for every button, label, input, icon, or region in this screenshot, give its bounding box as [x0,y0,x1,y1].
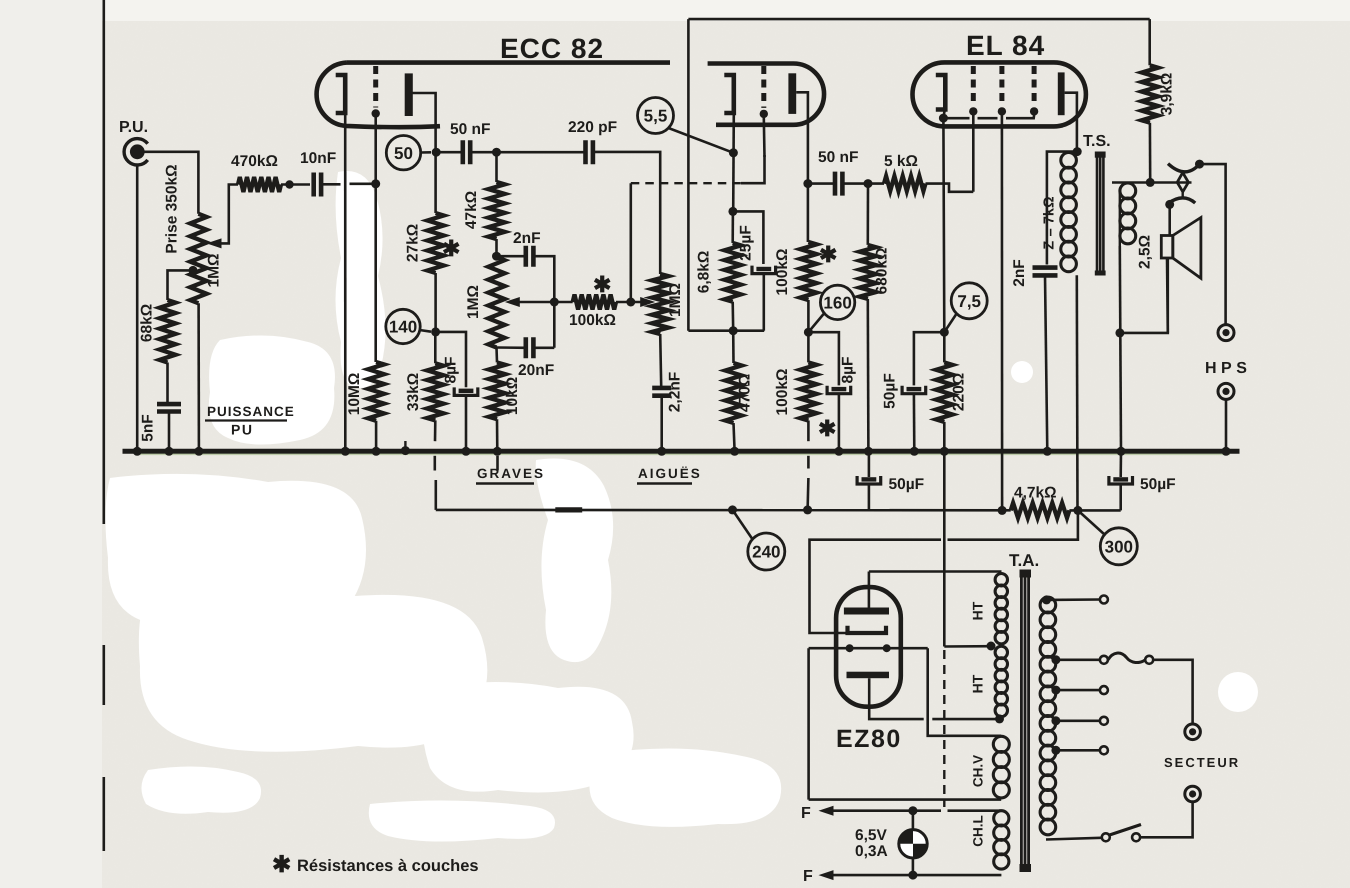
junction [1165,200,1174,209]
svg-text:GRAVES: GRAVES [477,466,545,481]
resistor 100kΩ [573,295,616,310]
svg-text:100kΩ: 100kΩ [569,312,616,329]
svg-text:8µF: 8µF [443,356,460,383]
wire [838,395,841,452]
terminal [1100,686,1108,694]
filament line F2 [819,870,834,880]
tube EL84 envelope [913,62,1086,126]
wire [943,451,946,646]
junction [1042,595,1051,604]
filament line F1 [819,806,834,816]
junction [401,446,410,455]
wire [1056,658,1100,661]
anode EL84 [1058,72,1065,115]
capacitor 220pF [586,140,593,164]
winding HT upper [995,574,1007,586]
wire [1148,19,1151,65]
anode EZ80 bottom [847,672,890,679]
node 240 junction [728,505,737,514]
svg-text:100kΩ: 100kΩ [774,249,791,296]
wire [1119,451,1122,477]
resistor 100kΩ lower [800,362,816,420]
wire [1047,598,1101,601]
svg-text:33kΩ: 33kΩ [405,373,422,411]
ground bus [123,449,1240,454]
wire [944,645,991,648]
svg-text:P.U.: P.U. [119,119,148,136]
wire [1006,115,1034,118]
grid 1 EL84 [971,66,976,105]
wire [810,540,942,633]
connector plug [1168,164,1199,172]
wire [433,456,436,471]
svg-text:27kΩ: 27kΩ [405,224,422,262]
voltage callout 50 [386,136,420,170]
junction [550,298,559,307]
wire [733,211,764,264]
jack HPS bottom [1218,383,1234,399]
junction [165,447,174,456]
junction [432,148,441,157]
voltage callout 300 [1100,528,1137,565]
wire [1046,838,1101,840]
junction [1222,447,1231,456]
resistor 27kΩ [427,213,443,273]
junction [626,298,635,307]
capacitor 50µF2 [1113,477,1128,481]
wire [593,152,660,274]
wire [943,422,946,451]
wire [281,183,310,186]
wire [496,456,499,471]
svg-text:300: 300 [1105,537,1133,556]
wire [943,332,946,362]
wire [913,395,916,452]
wire [497,255,526,258]
node 5,5 junction [729,148,738,157]
wire [741,155,765,183]
wire [1056,689,1100,692]
winding CH.V [993,736,1009,752]
voltage callout 160 [820,285,854,319]
wire [197,303,200,451]
wire [1200,164,1226,324]
svg-text:F: F [801,805,811,822]
wire [687,19,690,331]
node 7,5 junction [940,328,949,337]
wire [495,152,498,182]
wire [1140,802,1193,838]
wiper arrow [207,238,222,248]
wire [1149,123,1152,183]
junction [803,505,812,514]
capacitor 50µF1 [862,477,877,481]
node 300 junction [1073,506,1082,515]
svg-text:0,3A: 0,3A [855,843,888,860]
capacitor 50µF3 [907,387,922,391]
svg-text:2,5Ω: 2,5Ω [1137,235,1154,269]
resistor 220Ω [936,362,952,422]
wire [375,421,378,452]
wire [434,273,437,332]
wire [555,507,582,512]
wire [1076,275,1079,510]
junction [908,806,917,815]
wire [321,183,340,186]
wire [470,151,584,154]
junction [987,642,996,651]
junction [1043,447,1052,456]
wire [734,423,735,451]
capacitor 2nF snubber [1033,268,1058,276]
svg-text:47kΩ: 47kΩ [463,191,480,229]
svg-text:68kΩ: 68kΩ [139,304,156,342]
transformer T.S. core [1097,153,1103,274]
svg-text:2nF: 2nF [513,230,541,247]
wire [948,117,970,120]
potentiometer 1MΩ volume [190,214,206,303]
winding T.A. secondary [1040,597,1056,613]
wire [495,348,498,363]
wire [868,572,871,608]
filament EZ80 [846,644,854,652]
wire [806,478,809,510]
capacitor 25µF [756,267,771,271]
junction [908,871,917,880]
capacitor 2,2nF [652,388,671,396]
speaker 2,5Ω [1161,236,1173,259]
wire [1166,258,1169,333]
resistor 3,9kΩ [1142,65,1158,122]
svg-text:F: F [803,868,813,885]
wire [1065,93,1077,148]
lamp 6,5V 0,3A [899,830,927,858]
terminal [1100,746,1108,754]
svg-text:8µF: 8µF [840,356,857,383]
junction [864,447,873,456]
wire [374,117,377,362]
capacitor 10nF [314,173,321,197]
svg-text:✱: ✱ [272,851,291,877]
capacitor 20nF [526,337,534,358]
B+ 240 rail [436,509,1011,512]
grid 3 EL84 [1032,66,1037,105]
wire [731,211,734,243]
resistor 68kΩ [160,300,176,363]
svg-text:HPS: HPS [1205,360,1251,377]
resistor 100kΩ upper [800,242,816,300]
svg-text:✱: ✱ [593,272,611,297]
svg-text:ECC 82: ECC 82 [500,33,604,64]
terminal [1100,596,1108,604]
svg-text:HT: HT [970,674,986,693]
wire [688,329,764,332]
wire [843,182,885,185]
svg-text:✱: ✱ [442,236,460,261]
capacitor 8µF [459,389,474,393]
voltage callout 140 [386,309,420,343]
transformer T.A. core [1021,573,1028,870]
resistor 6,8kΩ [725,243,741,302]
svg-text:1MΩ: 1MΩ [465,285,482,319]
svg-text:10kΩ: 10kΩ [504,377,521,415]
svg-text:10nF: 10nF [300,150,336,167]
svg-text:2,2nF: 2,2nF [667,372,684,412]
wire [1056,749,1100,752]
wire [868,485,871,510]
junction [998,506,1007,515]
wire [762,117,765,157]
wire [166,363,169,405]
junction [462,447,471,456]
tube ECC82 envelope right [708,64,824,125]
wire [497,346,526,349]
wire [411,93,436,213]
junction [940,447,949,456]
wiper arrow aigues [640,297,655,307]
transformer T.S. secondary [1120,183,1136,199]
junction [1115,328,1124,337]
anode EZ80 top [844,608,889,615]
svg-text:3,9kΩ: 3,9kΩ [1159,73,1176,116]
tap node [189,266,198,275]
svg-text:2nF: 2nF [1011,259,1028,287]
junction [803,179,812,188]
svg-text:25µF: 25µF [738,225,755,261]
voltage callout 7,5 [951,283,987,319]
svg-text:100kΩ: 100kΩ [774,369,791,416]
junction [492,148,501,157]
wire [948,510,1078,539]
svg-text:50µF: 50µF [882,373,899,409]
wire [629,183,632,302]
wire [1120,246,1121,451]
svg-text:PUISSANCE: PUISSANCE [207,404,295,419]
svg-text:50: 50 [394,144,413,163]
wire [808,182,835,185]
wire [732,331,735,363]
wire [1119,485,1122,510]
wire [1120,259,1168,333]
junction [1146,178,1155,187]
junction [1073,147,1082,156]
switch [1102,833,1110,841]
junction [372,447,381,456]
wire [495,239,498,257]
svg-text:470kΩ: 470kΩ [231,153,278,170]
junction [371,179,380,188]
svg-text:240: 240 [752,543,780,562]
wire [144,152,198,214]
wire [1045,276,1047,452]
cathode EZ80 [848,626,887,633]
wire [978,117,998,120]
terminal [1100,717,1108,725]
junction [341,447,350,456]
svg-text:140: 140 [389,318,417,337]
junction [1051,746,1060,755]
wire [496,419,499,451]
svg-text:EZ80: EZ80 [836,725,902,753]
junction [492,252,501,261]
wire [660,334,661,386]
fuse [1100,656,1108,664]
junction [194,447,203,456]
svg-text:470Ω: 470Ω [737,374,754,412]
svg-text:50 nF: 50 nF [818,149,858,166]
svg-text:AIGUËS: AIGUËS [638,466,702,481]
wire [1153,660,1192,724]
junction [834,447,843,456]
wire [533,346,554,349]
junction [864,179,873,188]
junction [730,447,739,456]
wire [807,456,810,469]
wire [943,650,945,807]
svg-text:220 pF: 220 pF [568,119,617,136]
junction [1195,160,1204,169]
wire [868,451,871,477]
svg-text:5nF: 5nF [140,414,157,442]
wire [616,301,650,304]
wire [434,332,437,363]
wire [809,798,1002,801]
svg-text:HT: HT [970,601,986,620]
svg-text:T.S.: T.S. [1083,133,1111,150]
wire [631,182,741,184]
wire [465,397,468,452]
transformer T.S. primary [1061,153,1077,169]
wire [796,92,808,242]
wire [866,299,869,451]
wire [688,18,1149,21]
resistor 680kΩ [860,245,876,299]
resistor 4,7kΩ [1011,503,1070,518]
wire [660,396,663,452]
wire [807,332,810,362]
junction [657,447,666,456]
wire [914,332,944,385]
capacitor 50nF2 [835,172,842,196]
wire [1069,509,1120,512]
svg-text:5 kΩ: 5 kΩ [884,153,918,170]
svg-text:SECTEUR: SECTEUR [1164,755,1240,770]
resistor 10MΩ [368,362,384,421]
wire [1047,152,1077,265]
winding HT lower [995,646,1007,658]
resistor 33kΩ [427,363,443,420]
tube EZ80 envelope [836,587,901,707]
wire [943,111,944,332]
wire [344,115,347,452]
svg-text:5,5: 5,5 [644,107,668,126]
junction [1051,716,1060,725]
cathode EL84 [936,75,946,110]
capacitor 5nF [157,404,181,411]
wire [807,648,810,799]
junction [133,447,142,456]
wire [866,184,869,245]
wire [168,412,171,452]
svg-text:EL 84: EL 84 [966,30,1045,61]
winding CH.L [994,811,1009,826]
junction [1051,655,1060,664]
node 160 junction [804,328,813,337]
svg-text:6,5V: 6,5V [855,827,888,844]
svg-text:PU: PU [231,422,253,438]
svg-text:Z = 7kΩ: Z = 7kΩ [1042,196,1058,250]
wire [1056,719,1100,722]
wire [533,256,554,348]
svg-text:1MΩ: 1MΩ [667,283,684,317]
wire [1119,190,1121,246]
svg-text:6,8kΩ: 6,8kΩ [696,251,713,294]
resistor 5kΩ [884,176,926,191]
wire [731,302,734,331]
wire [807,300,810,332]
wire [808,332,839,385]
svg-text:160: 160 [823,294,851,313]
junction [1117,447,1126,456]
svg-text:680kΩ: 680kΩ [874,248,891,295]
resistor 470Ω [725,363,741,423]
junction [285,180,293,188]
anode triode 1 [405,73,413,116]
svg-text:50µF: 50µF [889,476,925,493]
cathode triode 2 [724,75,734,113]
svg-text:✱: ✱ [818,416,836,441]
wire [972,115,975,192]
wire [912,811,915,875]
junction [728,207,737,216]
resistor 47kΩ [488,182,504,239]
svg-text:✱: ✱ [819,242,837,267]
capacitor 50nF [463,140,470,164]
svg-text:220Ω: 220Ω [951,373,968,411]
wire [926,184,974,192]
capacitor 8µF2 [832,387,847,391]
wire [1168,204,1171,235]
wire [434,420,437,441]
wire [436,151,462,154]
potentiometer 1MΩ aigues [652,274,668,334]
wiper arrow graves [505,297,520,307]
junction [939,114,948,123]
svg-text:20nF: 20nF [518,362,554,379]
anode triode 2 [788,73,796,114]
svg-text:1MΩ: 1MΩ [206,254,223,288]
jack SECTEUR bottom [1185,786,1201,802]
capacitor 2nF [526,246,534,267]
tube ECC82 envelope left [317,63,670,128]
junction [493,447,502,456]
wire [869,678,924,719]
wire [1001,115,1004,511]
node 140 junction [431,327,440,336]
jack P.U. [124,139,148,165]
svg-text:50µF: 50µF [1140,476,1176,493]
wire [932,718,999,721]
voltage callout 240 [748,533,785,570]
svg-text:7,5: 7,5 [957,292,981,311]
junction [910,447,919,456]
svg-text:10MΩ: 10MΩ [346,373,363,416]
resistor 10kΩ [489,362,505,419]
svg-text:CH.V: CH.V [971,755,986,787]
jack HPS top [1218,325,1234,341]
wire [869,570,1002,573]
svg-text:CH.L: CH.L [971,815,986,847]
